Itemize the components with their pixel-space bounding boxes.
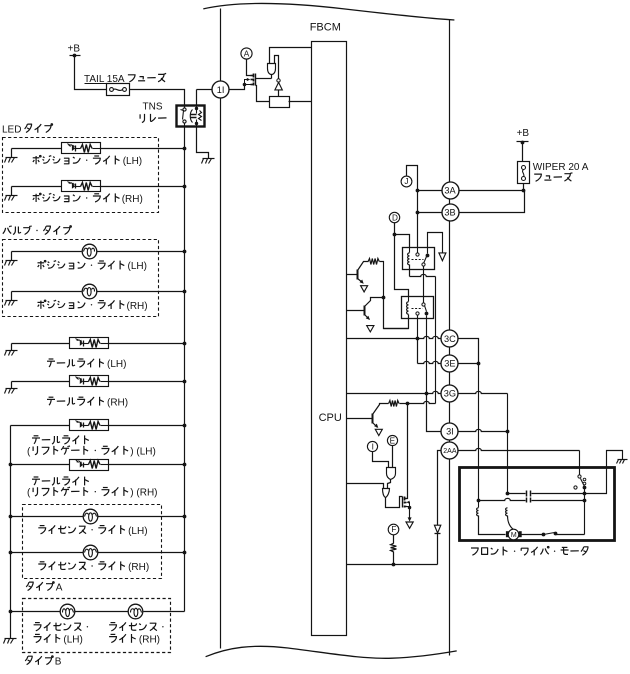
svg-text:E: E bbox=[390, 437, 396, 446]
svg-text:WIPER 20 A: WIPER 20 A bbox=[533, 162, 589, 173]
svg-text:+B: +B bbox=[68, 44, 81, 55]
svg-text:) (RH): ) (RH) bbox=[130, 488, 157, 499]
svg-text:3G: 3G bbox=[444, 388, 456, 398]
svg-text:3B: 3B bbox=[444, 208, 455, 218]
svg-text:(LH): (LH) bbox=[107, 359, 126, 370]
svg-text:B: B bbox=[55, 657, 62, 668]
svg-text:A: A bbox=[56, 583, 63, 594]
svg-text:(LH): (LH) bbox=[63, 635, 82, 646]
svg-text:(LH): (LH) bbox=[123, 156, 142, 167]
svg-text:(RH): (RH) bbox=[107, 397, 128, 408]
svg-text:3I: 3I bbox=[446, 427, 454, 437]
svg-text:3C: 3C bbox=[444, 334, 456, 344]
svg-text:(: ( bbox=[27, 447, 31, 458]
svg-text:J: J bbox=[404, 177, 408, 186]
svg-text:(RH): (RH) bbox=[139, 635, 160, 646]
svg-text:A: A bbox=[244, 50, 250, 59]
svg-text:TNS: TNS bbox=[143, 102, 163, 113]
svg-text:FBCM: FBCM bbox=[310, 21, 341, 33]
svg-text:1I: 1I bbox=[217, 85, 225, 95]
svg-text:2AA: 2AA bbox=[443, 448, 457, 455]
svg-text:(LH): (LH) bbox=[128, 261, 147, 272]
svg-text:(LH): (LH) bbox=[128, 526, 147, 537]
svg-text:M: M bbox=[511, 532, 517, 539]
svg-text:LED: LED bbox=[2, 125, 21, 136]
svg-text:) (LH): ) (LH) bbox=[130, 447, 156, 458]
svg-text:F: F bbox=[391, 525, 396, 534]
svg-text:CPU: CPU bbox=[319, 412, 342, 424]
svg-text:I: I bbox=[372, 442, 374, 451]
svg-text:+B: +B bbox=[517, 128, 530, 139]
svg-text:3E: 3E bbox=[444, 358, 455, 368]
svg-text:(RH): (RH) bbox=[127, 301, 148, 312]
svg-text:(RH): (RH) bbox=[128, 562, 149, 573]
svg-text:D: D bbox=[392, 213, 398, 222]
svg-text:(: ( bbox=[27, 488, 31, 499]
svg-text:3A: 3A bbox=[444, 186, 456, 196]
svg-text:(RH): (RH) bbox=[122, 194, 143, 205]
